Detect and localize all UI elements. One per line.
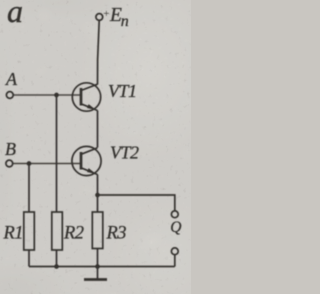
wire: R2 to rail [56, 250, 58, 267]
svg-text:R2: R2 [63, 224, 84, 244]
svg-text:+: + [103, 8, 109, 20]
svg-text:A: A [5, 69, 18, 89]
resistor R2 [52, 212, 63, 250]
input terminal A [6, 92, 13, 99]
wire: R1 to rail [28, 250, 30, 267]
wire: lower terminal to ground rail [174, 255, 176, 267]
svg-text:B: B [5, 139, 16, 159]
paper background [0, 0, 191, 294]
output terminal Q upper [171, 211, 178, 218]
output terminal Q lower [171, 248, 178, 255]
wire: VT2 emitter down to R3 [97, 175, 99, 213]
wire: B to VT2 base [13, 163, 81, 165]
junction: emitter/output node [95, 193, 100, 198]
svg-text:R3: R3 [106, 224, 127, 244]
junction on B wire (R1 tap) [27, 161, 32, 166]
+Ep supply terminal [96, 14, 103, 21]
transistor VT2 [72, 146, 101, 175]
wire: supply to VT1 collector [98, 21, 100, 85]
resistor R3 [92, 212, 103, 249]
ground symbol [84, 267, 107, 280]
junction on A wire (R2 tap) [54, 93, 59, 98]
ground rail wire [29, 266, 175, 268]
svg-text:VT1: VT1 [108, 81, 137, 101]
resistor R1 [24, 212, 35, 250]
input terminal B [6, 160, 13, 167]
svg-text:а: а [7, 0, 23, 29]
svg-text:VT2: VT2 [110, 143, 139, 163]
wire: VT1 emitter to VT2 collector [97, 111, 99, 148]
wire: output node to Q terminal [98, 195, 175, 211]
svg-text:Q: Q [170, 219, 181, 236]
wire: R3 to rail [97, 249, 99, 267]
junction: R2 at rail [54, 264, 59, 269]
wire: R1 drop from B wire [28, 164, 30, 213]
wire: R2 drop from A wire (crosses B wire, no junction) [56, 95, 58, 212]
svg-text:п: п [121, 13, 129, 30]
junction: R3/ground at rail [95, 264, 100, 269]
svg-text:R1: R1 [3, 224, 24, 244]
wire: A to VT1 base [13, 94, 81, 96]
transistor VT1 [72, 83, 100, 111]
